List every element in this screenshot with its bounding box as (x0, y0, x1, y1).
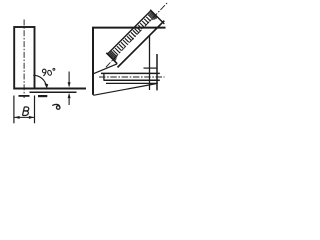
right figure: base slant line (93, 84, 157, 96)
right figure: clamp bar bottom (104, 79, 160, 81)
left figure: flange bottom line (30, 91, 77, 93)
left figure: arc arrowhead (44, 83, 48, 88)
right figure: bar lower-left end face (106, 53, 117, 64)
left figure: B dimension line with arrows (14, 116, 35, 118)
left figure: flange top surface line (13, 88, 86, 90)
right figure: bar upper-right end face (150, 10, 164, 24)
right figure: clamp bar top (101, 72, 160, 74)
right figure: hatching on bar upper band (109, 12, 158, 61)
left figure: label delta loop (56, 106, 60, 110)
left figure: lower broken line segment 2 (38, 95, 47, 97)
left figure: label 90deg digit 0 (47, 70, 52, 76)
left figure: label 90deg digit 9 (42, 68, 55, 76)
right figure: strut from bar end to frame (94, 64, 117, 74)
right figure: clamp bar left end (103, 73, 105, 81)
left figure: vertical dash-dot centerline (23, 20, 25, 99)
left figure: label B (23, 107, 29, 116)
left figure: thickness dim lower arrow (68, 98, 70, 106)
right figure: wedge vertical edge (149, 36, 151, 90)
left figure: B dim extension line left (13, 96, 15, 124)
right figure: bolt vertical b (156, 54, 158, 90)
right figure: inclined specimen bar lower edge (118, 21, 165, 68)
left figure: B dim extension line right (34, 96, 36, 124)
left figure: label 90deg degree sign (53, 68, 55, 70)
right figure: inclined specimen bar upper edge (108, 11, 151, 54)
left figure: lower broken line segment 1 (19, 95, 30, 97)
right figure: bracket horizontal (144, 67, 158, 69)
left figure: vertical web plate (14, 27, 34, 89)
left figure: label delta tail (52, 104, 59, 106)
right figure: bar axis dash-dot (106, 2, 168, 67)
right figure: clamp bar dash-dot centerline (99, 76, 165, 78)
left figure: thickness dim upper arrow (68, 72, 70, 84)
left figure: 90-degree arc leader (33, 75, 46, 86)
right figure: fixture frame vertical (92, 27, 94, 95)
right figure: fixture frame top horizontal (92, 27, 165, 29)
right figure: clamp bar lower line (106, 82, 158, 84)
